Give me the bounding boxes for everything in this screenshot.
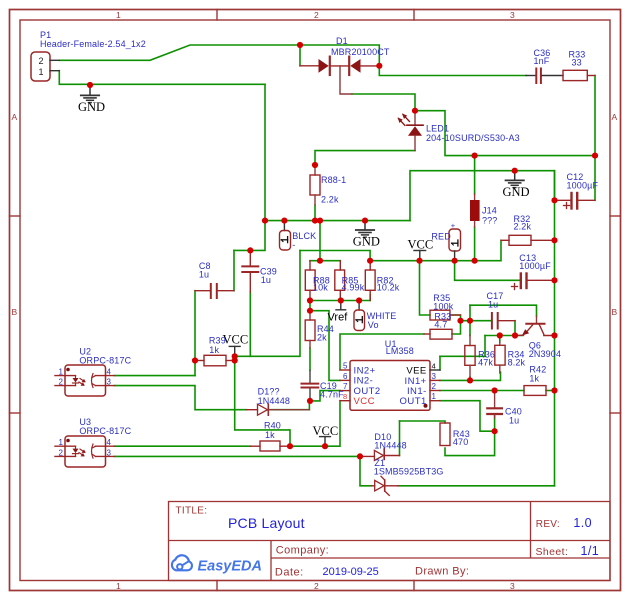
svg-text:2: 2 [432,382,437,391]
ground GND3 [503,171,530,199]
node D1 top [297,42,303,48]
svg-text:1000µF: 1000µF [519,261,551,271]
svg-text:4: 4 [432,362,436,371]
wire emitter to VEE link [484,336,486,357]
resistor R33 (33) [563,70,595,80]
node R42 right [551,387,557,393]
svg-text:33: 33 [572,58,582,68]
wire R40 right to VCC row [290,401,340,447]
node emitter [512,332,518,338]
wire x300 drop [235,250,300,356]
frame tick top 1 [216,10,218,21]
svg-text:GND: GND [503,185,530,199]
resistor R39 (1k) [195,355,235,366]
svg-text:R39: R39 [209,336,226,346]
svg-text:EasyEDA: EasyEDA [198,559,262,575]
svg-text:4.7: 4.7 [434,320,447,330]
svg-text:1u: 1u [509,416,519,426]
svg-text:5: 5 [343,362,348,371]
wire U2 pin3 row to D13 [115,386,247,410]
capacitor C12 (1000uF polar) [555,193,596,209]
jumper J14 [470,194,480,227]
wire D1 anode drop [299,45,301,66]
wire C40 bottom to R43 row [445,416,495,456]
svg-text:1/1: 1/1 [581,544,600,558]
frame tick top 2 [413,10,415,21]
wire R88-1 bottom [314,205,316,221]
svg-text:BLCK: BLCK [292,231,316,241]
svg-text:4.99k: 4.99k [342,282,365,292]
capacitor C36 [526,69,563,84]
frame tick bottom 1 [216,581,218,591]
frame tick right 1 [610,215,621,217]
node C39 top [247,247,253,253]
svg-text:1: 1 [116,10,121,20]
wire above C19 [309,348,311,370]
svg-text:6: 6 [343,372,348,381]
connector P1 [31,52,59,81]
svg-text:A: A [12,112,18,122]
svg-text:10k: 10k [313,282,328,292]
node J14 top [472,153,478,159]
node C40 top [492,387,498,393]
frame tick right 2 [610,412,621,414]
svg-text:1N4448: 1N4448 [258,396,290,406]
wire R36 bottom / IN1+ row [440,372,501,380]
net flag Vref [328,301,349,324]
wire IN2+ route [340,334,424,370]
node RED stub [452,258,458,264]
wire divider row B [370,240,501,260]
frame tick left 1 [10,215,21,217]
diode D13 (D1?? 1N4448) [247,404,310,415]
svg-text:1000µF: 1000µF [567,181,599,191]
wire Q6 base top [470,305,537,316]
wire C13 left route [455,261,520,281]
wire emitter row [485,335,523,337]
wire U3 pin4 to R40 [115,445,251,447]
node R44 top [307,308,313,314]
resistor R36 (47k) [465,335,475,378]
svg-text:8: 8 [343,392,347,401]
wire C39 top row [234,221,265,251]
svg-text:2N3904: 2N3904 [529,349,561,359]
LED1 [398,111,424,151]
wire R33 output down [594,76,596,201]
wire IN1- row [440,390,524,392]
node R39 right [232,357,238,363]
wire P1 pin1 to GND row [59,71,265,85]
title block [169,502,611,581]
svg-text:GND: GND [78,100,105,114]
wire R82 top feed [300,251,370,261]
wire U3 pin3 long row [115,455,361,457]
svg-text:Vref: Vref [328,312,349,324]
svg-text:D1??: D1?? [258,387,280,397]
svg-text:1nF: 1nF [534,56,550,66]
resistor R88 (10k) [305,261,315,301]
wire GND upper row [410,171,555,221]
svg-text:R88-1: R88-1 [321,175,346,185]
resistor R44 (2k) [305,311,315,348]
node D10 anode [357,453,363,459]
resistor R82 (10.2k) [365,261,375,301]
svg-text:1: 1 [59,368,64,377]
wire GND rail right [554,171,556,486]
EasyEDA logo [172,555,262,574]
svg-text:3: 3 [510,581,515,591]
svg-text:RED: RED [431,232,451,242]
svg-text:OUT1: OUT1 [400,396,427,407]
node R88 bottom [307,297,313,303]
capacitor C13 (1000uF polar) [512,274,555,290]
svg-text:4: 4 [107,438,112,447]
svg-text:-: - [292,240,295,250]
svg-text:1k: 1k [209,345,219,355]
wire Z1 cathode to GND rail [398,485,555,487]
svg-text:7: 7 [343,382,348,391]
svg-text:D1: D1 [336,36,348,46]
wire VEE pin4 [439,356,441,370]
node row155 right [592,153,598,159]
svg-text:204-10SURD/S530-A3: 204-10SURD/S530-A3 [426,133,520,143]
wire left rail down [264,84,266,220]
wire OUT2 jog [310,391,340,401]
net flag VCC1 [223,333,249,357]
svg-text:+: + [451,221,456,230]
frame tick left 2 [10,412,21,414]
node C40 bottom [492,428,498,434]
svg-text:470: 470 [453,437,468,447]
svg-text:2: 2 [59,448,64,457]
svg-text:1u: 1u [199,270,209,280]
zener Z1 (1SMB5925BT3G) [372,476,399,495]
wire D10 cathode riser [399,421,401,456]
wire link R88-R44 [309,301,311,311]
svg-text:Vo: Vo [368,320,379,330]
capacitor C39 (1u) [242,250,258,292]
wire x195 rail [194,291,196,376]
wire LED right row [415,111,595,156]
node BLCK stub [281,218,287,224]
svg-text:LED1: LED1 [426,124,449,134]
svg-text:Drawn By:: Drawn By: [415,566,469,578]
svg-text:2.2k: 2.2k [321,195,339,205]
svg-text:47k: 47k [478,358,493,368]
node R82 top [367,258,373,264]
node LED top [412,108,418,114]
wire C17 right drop [514,321,516,336]
resistor R40 (1k) [251,441,291,451]
node left rail corner [262,218,268,224]
svg-text:B: B [12,307,18,317]
title block texts [176,506,600,579]
capacitor C40 (1u) [487,391,502,419]
node VCC2 [322,443,328,449]
node VCC1 [232,353,238,359]
wire D13 cathode jog [269,401,309,410]
svg-text:2: 2 [39,56,44,66]
node C17 left b [467,318,473,324]
svg-text:PCB Layout: PCB Layout [228,515,305,531]
svg-text:2k: 2k [317,333,327,343]
node R39 left [192,357,198,363]
svg-text:3: 3 [510,10,515,20]
svg-text:1k: 1k [529,374,539,384]
resistor R88-1 (2.2k) [310,165,320,205]
transistor Q6 (2N3904) [515,316,555,336]
svg-text:1k: 1k [265,430,275,440]
resistor R43 (470) [440,423,450,446]
wire VEE row [440,355,485,357]
resistor R85 (4.99k) [335,261,345,301]
resistor R32 (2.2k) [501,235,555,245]
svg-text:B: B [612,307,618,317]
node J14 bottom [472,258,478,264]
svg-text:2019-09-25: 2019-09-25 [323,566,379,578]
svg-text:ORPC-817C: ORPC-817C [79,356,131,366]
wire U2 pin4 row [115,375,196,377]
svg-text:3: 3 [107,378,112,387]
wire J14 top [474,156,476,194]
node divider A [317,258,323,264]
ground GND2 [353,221,380,249]
svg-text:1.0: 1.0 [573,516,592,530]
node Vref [338,297,344,303]
node R88-1 bottom [312,218,318,224]
svg-text:Header-Female-2.54_1x2: Header-Female-2.54_1x2 [40,39,146,49]
optocoupler U2 (ORPC-817C) [55,365,115,396]
node Q6 right [551,332,557,338]
svg-text:VCC: VCC [223,333,249,347]
svg-text:J14: J14 [482,206,497,216]
svg-text:1u: 1u [261,275,271,285]
wire R42 right [546,390,555,392]
node R88-1 top [312,162,318,168]
resistor R35 (100k) [430,310,461,320]
frame tick bottom 2 [413,581,415,591]
net flag VCC3 [408,238,434,261]
svg-text:GND: GND [353,235,380,249]
wire OUT1 route [440,401,495,432]
capacitor C8 (1u) [195,284,234,298]
wire R36 top [469,321,471,336]
diode D10 (1N4448) [360,449,400,461]
wire R39 to R40 route [235,361,290,447]
node emitter left [497,332,503,338]
svg-text:2: 2 [314,10,319,20]
svg-text:ORPC-817C: ORPC-817C [79,426,131,436]
svg-text:TITLE:: TITLE: [176,506,208,517]
svg-text:1: 1 [39,67,44,77]
wire R35 left [420,261,431,315]
svg-text:1N4448: 1N4448 [374,441,406,451]
wire BLCK row [265,220,410,222]
capacitor C17 (1u) [492,313,515,329]
wire C17 left row [461,320,492,322]
resistor R34 (8.2k) [495,342,505,373]
node R40 right [287,443,293,449]
node C19 bottom [307,398,313,404]
svg-text:2.2k: 2.2k [514,222,532,232]
svg-text:REV:: REV: [536,519,560,530]
opamp U1 (LM358) [340,361,440,411]
svg-text:1: 1 [432,392,437,401]
wire R43 top row [400,421,446,423]
wire R36 bottom lead drop [469,377,471,380]
wire divider row A [310,260,340,262]
svg-text:8.2k: 8.2k [508,358,526,368]
svg-text:2: 2 [59,378,64,387]
node GND2 [362,218,368,224]
svg-text:1SMB5925BT3G: 1SMB5925BT3G [374,467,444,477]
connector RED [449,229,461,261]
svg-text:Company:: Company: [276,545,329,557]
node C12 left [551,197,557,203]
wire R33-4.7 to C17 riser [450,315,461,334]
svg-text:1: 1 [116,581,121,591]
svg-text:A: A [612,112,618,122]
node C17 left a [457,318,463,324]
node C13 right [551,277,557,283]
svg-text:Sheet:: Sheet: [536,546,569,558]
capacitor C19 (4.7nF) [302,370,319,401]
svg-text:LM358: LM358 [386,346,414,356]
wire D1 center tap [352,94,415,111]
svg-text:VCC: VCC [354,396,375,407]
ground GND1 [78,85,105,114]
svg-text:???: ??? [482,216,497,226]
svg-text:1u: 1u [488,300,498,310]
node R32 right [551,237,557,243]
svg-text:4: 4 [107,368,112,377]
svg-text:100k: 100k [433,302,453,312]
wire riser to C17 row [469,305,471,321]
wire x320 BLCK to divider row [319,221,321,261]
wire C8 right riser [233,250,235,290]
node WHITE stub [356,297,362,303]
wire D1 right to C36 row [379,66,526,76]
wire Z1 anode route [360,456,372,485]
resistor R33b (4.7) [424,329,452,339]
wire R88 bottom row [310,295,370,301]
optocoupler U3 (ORPC-817C) [55,436,115,467]
connector BLCK [280,221,291,250]
diode D1 (dual, MBR20100CT) [300,57,379,94]
node x320 top [317,218,323,224]
svg-text:2: 2 [314,581,319,591]
connector WHITE (Vo) [354,301,365,331]
node VCC3 [416,258,422,264]
svg-text:R40: R40 [264,421,281,431]
wire R34 top drop [499,336,501,343]
wire VCC1 link [234,356,236,360]
svg-text:1: 1 [59,438,64,447]
net flag VCC2 [313,424,339,446]
resistor R42 (1k) [524,386,546,396]
svg-text:MBR20100CT: MBR20100CT [331,47,390,57]
node GND3 [512,168,518,174]
svg-text:VCC: VCC [408,238,434,252]
svg-text:10.2k: 10.2k [377,282,400,292]
wire P1 pin2 to D1 top [59,45,379,66]
svg-text:Date:: Date: [275,567,304,579]
node D1 right [376,63,382,69]
svg-text:4.7nF: 4.7nF [320,390,344,400]
node P1 gnd [87,82,93,88]
node R36 bottom [467,377,473,383]
wire LED bottom to R88-1 [315,151,415,165]
svg-text:3: 3 [107,448,112,457]
wire J14 bottom [474,227,476,261]
wire IN2- route [310,311,340,381]
svg-text:3: 3 [432,372,437,381]
wire C39 bottom drop [249,292,251,356]
svg-text:VCC: VCC [313,424,339,438]
